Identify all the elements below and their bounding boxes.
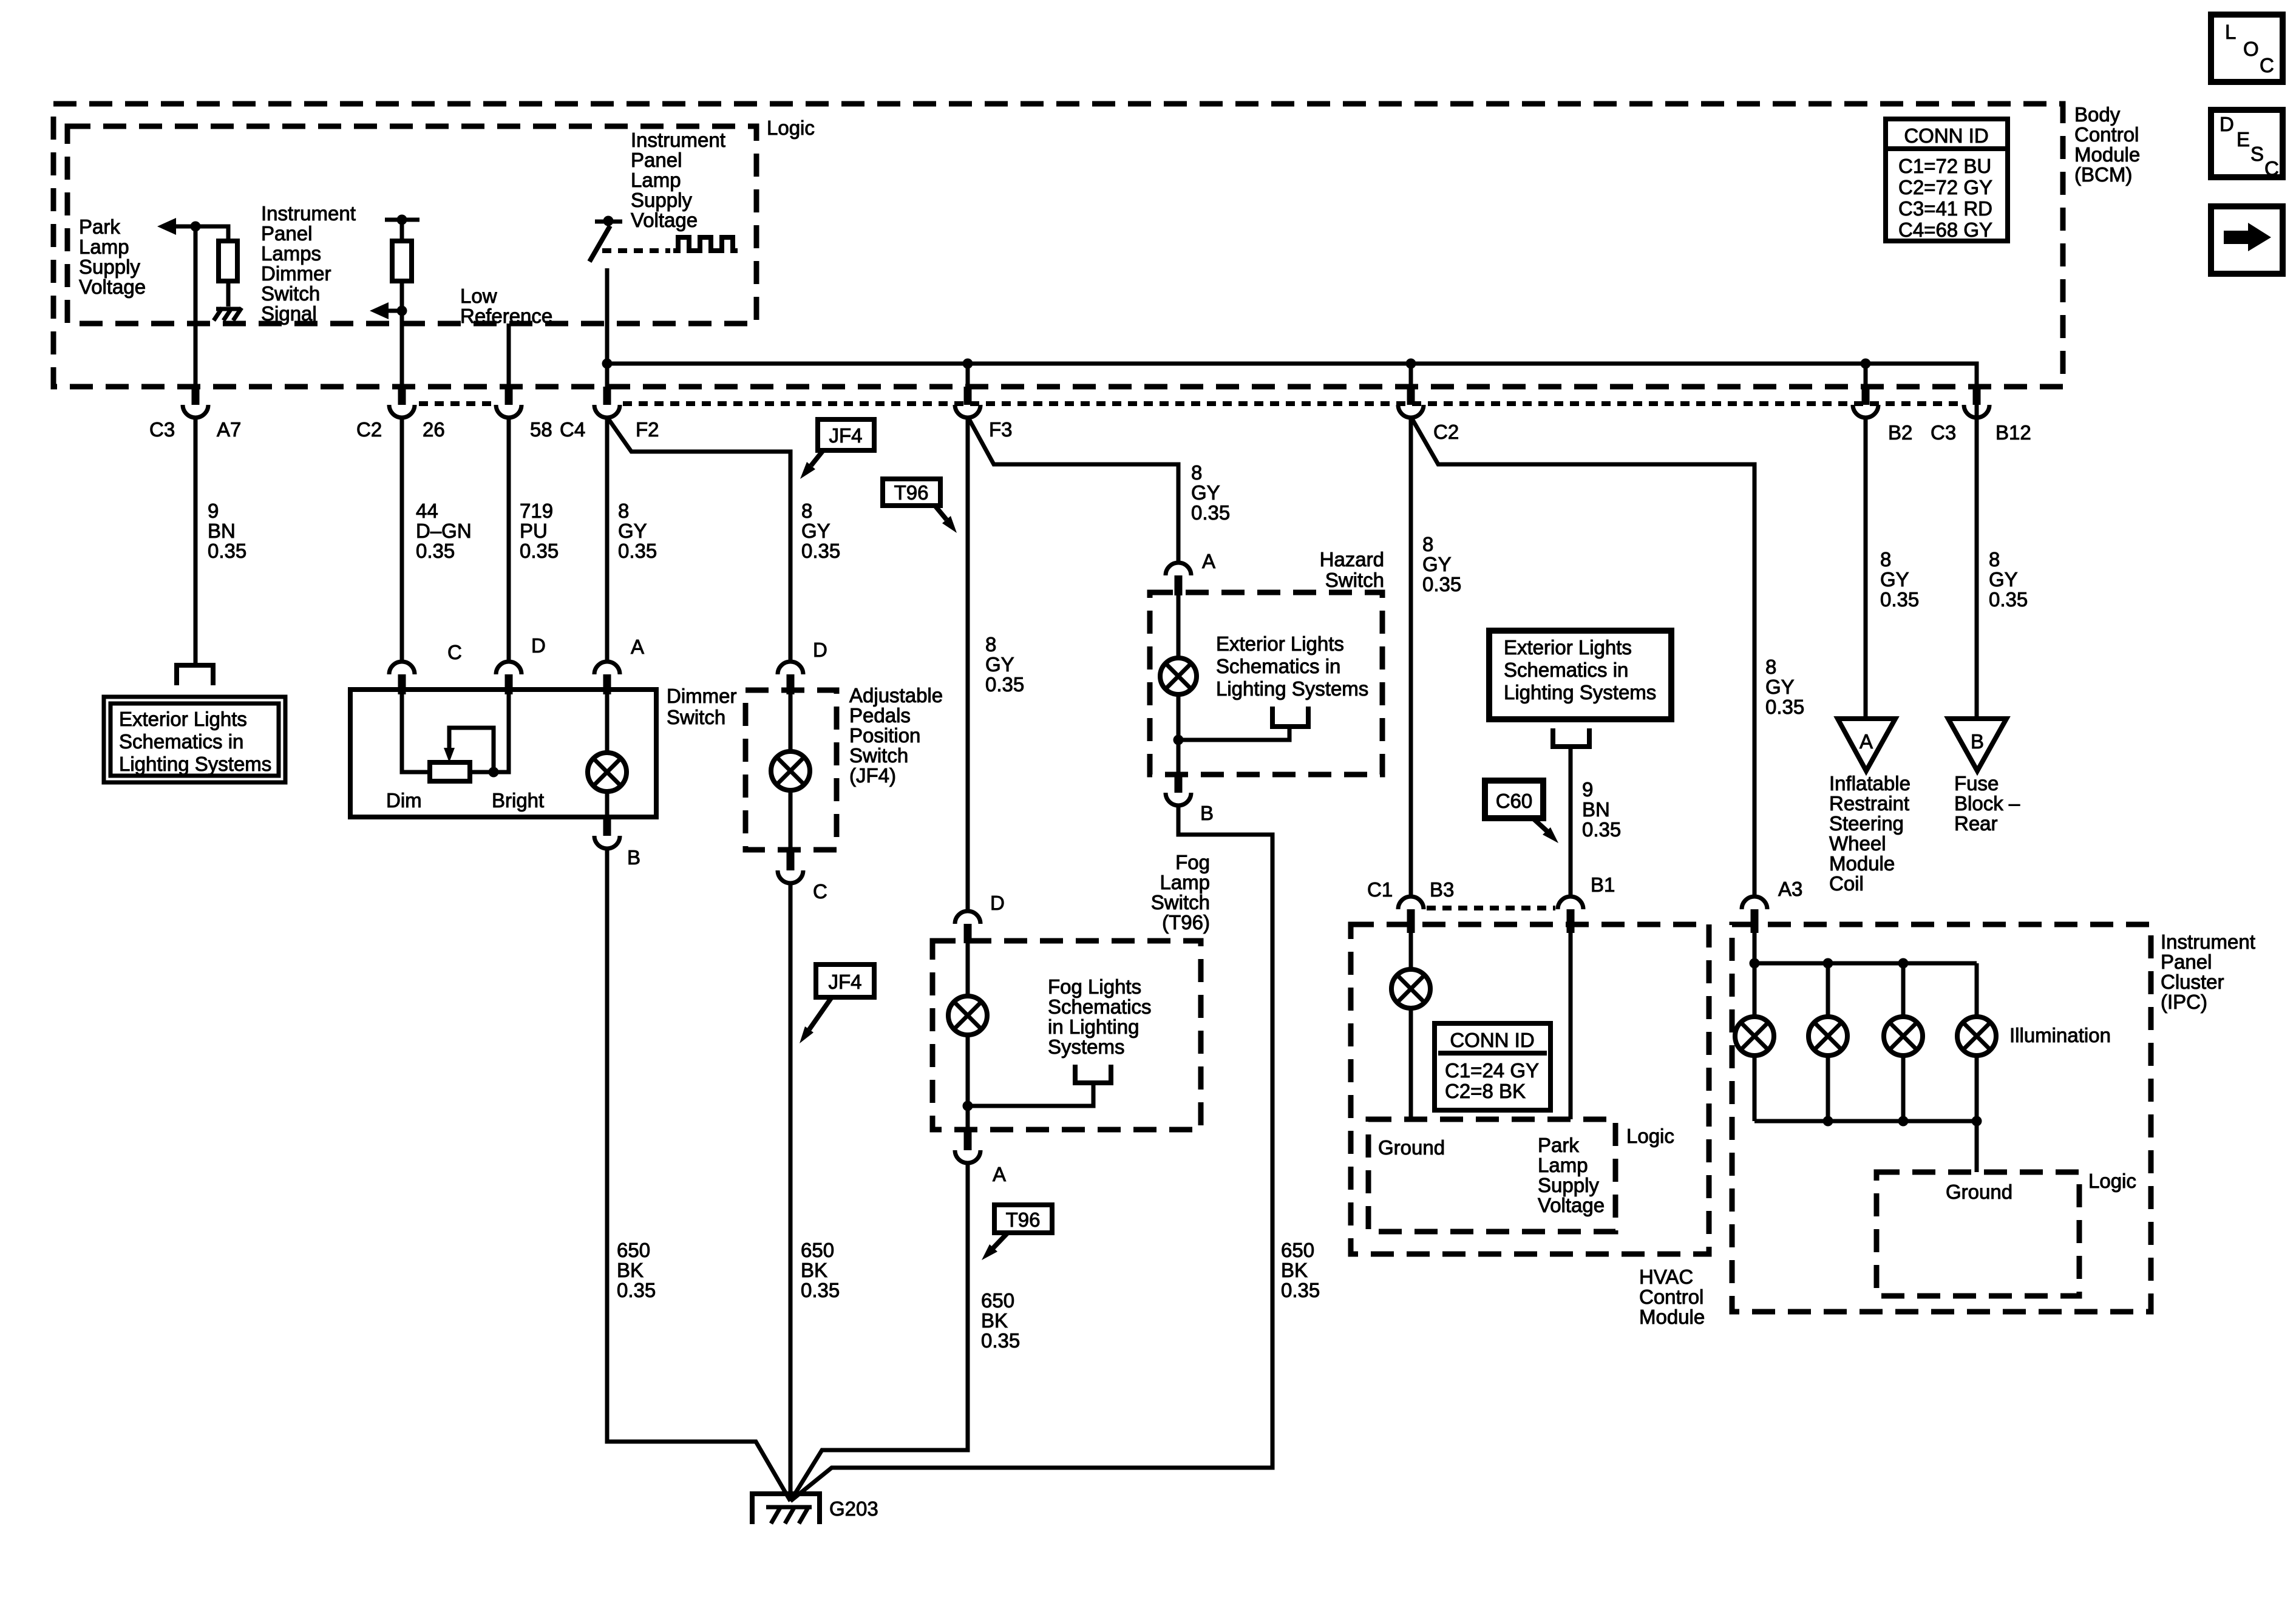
ground chassis (BCM internal) xyxy=(214,308,242,320)
svg-text:Supply: Supply xyxy=(1538,1174,1599,1196)
svg-text:Lighting Systems: Lighting Systems xyxy=(119,753,271,775)
svg-text:Exterior Lights: Exterior Lights xyxy=(119,708,247,730)
node IPC bottom right xyxy=(1972,1116,1982,1127)
svg-text:A: A xyxy=(1202,550,1215,572)
svg-text:G203: G203 xyxy=(829,1497,878,1520)
svg-text:GY: GY xyxy=(1765,676,1795,698)
svg-text:Lamp: Lamp xyxy=(1160,871,1210,893)
svg-text:9: 9 xyxy=(208,500,219,522)
connector B at dimmer bottom xyxy=(603,817,611,836)
logic box IPC Logic xyxy=(1877,1172,2079,1296)
svg-text:BK: BK xyxy=(617,1259,644,1281)
svg-text:Position: Position xyxy=(849,724,920,747)
svg-text:0.35: 0.35 xyxy=(1191,501,1230,524)
svg-text:Instrument: Instrument xyxy=(631,129,725,151)
wiper arm with arrow xyxy=(449,728,494,772)
svg-text:8: 8 xyxy=(618,500,629,522)
svg-text:650: 650 xyxy=(617,1239,650,1261)
wire 719 PU 0.35 to dimmer switch D xyxy=(507,418,511,661)
node IPC bus 2 xyxy=(1823,958,1833,969)
svg-text:Cluster: Cluster xyxy=(2161,971,2224,993)
svg-text:Supply: Supply xyxy=(631,189,692,211)
svg-text:C: C xyxy=(447,641,462,663)
node IPC bus 3 xyxy=(1898,958,1909,969)
connector A at hazard switch xyxy=(1166,563,1191,575)
svg-text:(BCM): (BCM) xyxy=(2074,163,2132,186)
svg-text:Exterior Lights: Exterior Lights xyxy=(1216,632,1344,655)
svg-text:B: B xyxy=(1200,802,1214,824)
svg-text:0.35: 0.35 xyxy=(801,540,840,562)
wire 9 BN 0.35 to HVAC B1 xyxy=(1569,747,1573,897)
connector C at dimmer switch xyxy=(389,662,415,674)
wire dotted connector face F2-B12 xyxy=(623,401,1961,406)
svg-text:CONN ID: CONN ID xyxy=(1904,124,1988,147)
svg-text:0.35: 0.35 xyxy=(1422,573,1461,595)
node fog junction xyxy=(963,1101,973,1111)
connector C2 at BCM xyxy=(1407,387,1415,405)
wire 650 BK fog to ground xyxy=(790,1163,968,1501)
svg-text:650: 650 xyxy=(981,1289,1014,1312)
svg-text:Panel: Panel xyxy=(631,149,682,171)
svg-text:Lighting Systems: Lighting Systems xyxy=(1216,677,1368,700)
node wiper tie to bright xyxy=(489,767,499,778)
svg-text:Logic: Logic xyxy=(2088,1170,2136,1192)
wire dimmer D internal xyxy=(470,694,509,772)
symbol PWM square wave xyxy=(673,237,738,251)
wire dotted connector face HVAC xyxy=(1427,906,1555,910)
wire IPC lamp bus top xyxy=(1754,933,1977,963)
svg-text:PU: PU xyxy=(520,520,548,542)
resistor park-lamp pull-up xyxy=(219,241,237,281)
svg-text:Schematics in: Schematics in xyxy=(1216,655,1340,677)
svg-text:F3: F3 xyxy=(989,418,1013,441)
svg-text:Logic: Logic xyxy=(767,117,815,139)
connector C at pedals bottom xyxy=(787,850,795,870)
svg-text:O: O xyxy=(2243,38,2259,60)
svg-text:C4: C4 xyxy=(560,418,585,441)
svg-text:C4=68 GY: C4=68 GY xyxy=(1898,219,1992,241)
svg-text:B1: B1 xyxy=(1591,873,1615,896)
wire dashed switch control xyxy=(602,248,670,253)
component box Adjustable Pedals Position Switch (JF4) xyxy=(746,690,837,850)
wire F2 drop inside BCM xyxy=(605,268,610,389)
svg-text:Schematics: Schematics xyxy=(1048,995,1152,1018)
svg-text:Control: Control xyxy=(2074,123,2139,146)
svg-text:0.35: 0.35 xyxy=(1880,588,1919,611)
svg-text:C1=72 BU: C1=72 BU xyxy=(1898,155,1991,177)
wire C3-A7 drop inside BCM xyxy=(194,226,198,389)
svg-text:Instrument: Instrument xyxy=(2161,931,2255,953)
svg-text:Instrument: Instrument xyxy=(261,202,356,225)
lamp fog switch illumination xyxy=(948,996,987,1035)
potentiometer dimmer rheostat xyxy=(430,762,470,781)
svg-text:A: A xyxy=(993,1163,1006,1185)
svg-text:B3: B3 xyxy=(1430,878,1454,901)
svg-text:GY: GY xyxy=(1422,553,1452,575)
node bus B2 xyxy=(1861,359,1871,369)
callout T96 (lower) xyxy=(982,1205,1052,1260)
wire 9 BN 0.35 C3/A7 to exterior lights xyxy=(194,418,198,664)
legend box DESC xyxy=(2211,110,2283,180)
wire dimmer A-B internal xyxy=(605,694,610,817)
wire 8 GY 0.35 branch to hazard switch xyxy=(969,419,1178,563)
svg-text:Systems: Systems xyxy=(1048,1036,1125,1058)
svg-text:in Lighting: in Lighting xyxy=(1048,1015,1139,1038)
wire F3 drop to edge xyxy=(966,364,970,389)
node IPC bus left xyxy=(1750,958,1760,969)
svg-text:L: L xyxy=(2225,21,2236,43)
svg-text:Coil: Coil xyxy=(1829,872,1864,895)
node IPC bottom 3 xyxy=(1898,1116,1909,1127)
ground G203 splice xyxy=(752,1494,820,1524)
svg-text:D: D xyxy=(531,634,546,657)
connector C2/26 at BCM xyxy=(398,387,406,405)
module box BCM (Body Control Module) xyxy=(53,104,2063,387)
lamp pedals illumination xyxy=(771,751,810,790)
svg-text:Rear: Rear xyxy=(1954,812,1998,835)
connector C3/B12 at BCM xyxy=(1973,387,1981,405)
svg-text:0.35: 0.35 xyxy=(617,1279,656,1301)
reference box Exterior Lights Schematics (left) xyxy=(104,697,285,782)
connector A at fog bottom xyxy=(964,1130,972,1150)
switch IP lamp supply (BCM driver) xyxy=(589,216,622,262)
svg-text:F2: F2 xyxy=(636,418,659,441)
lamp IPC illumination 4 xyxy=(1957,1017,1996,1056)
svg-text:Schematics in: Schematics in xyxy=(119,730,243,753)
svg-text:Body: Body xyxy=(2074,103,2121,126)
svg-text:Exterior Lights: Exterior Lights xyxy=(1504,636,1632,659)
wire 8 GY 0.35 F3 to fog lamp switch xyxy=(966,418,970,911)
svg-text:JF4: JF4 xyxy=(828,971,861,993)
wire 8 GY 0.35 branch to IPC A3 xyxy=(1412,419,1754,897)
svg-text:26: 26 xyxy=(423,418,445,441)
svg-text:A: A xyxy=(1860,730,1873,753)
svg-text:Module: Module xyxy=(1829,852,1895,875)
svg-text:8: 8 xyxy=(1989,548,2000,571)
svg-text:B2: B2 xyxy=(1888,421,1912,444)
svg-text:8: 8 xyxy=(1765,656,1776,678)
lamp IPC illumination 3 xyxy=(1884,1017,1923,1056)
wire IPC lamp branch 1 xyxy=(1753,963,1757,1121)
module box HVAC Control Module xyxy=(1351,924,1709,1254)
node IPC bottom 2 xyxy=(1823,1116,1833,1127)
svg-text:Voltage: Voltage xyxy=(79,276,146,298)
wire BCM internal supply bus xyxy=(607,364,1977,389)
svg-text:BK: BK xyxy=(1281,1259,1308,1281)
connector C3/A7 at BCM xyxy=(192,387,200,405)
svg-text:D–GN: D–GN xyxy=(416,520,472,542)
svg-text:Fuse: Fuse xyxy=(1954,772,1999,795)
node bus F2 xyxy=(602,359,613,369)
svg-text:Fog: Fog xyxy=(1175,851,1210,873)
svg-text:Panel: Panel xyxy=(2161,951,2212,973)
svg-text:Adjustable: Adjustable xyxy=(849,684,943,707)
svg-text:0.35: 0.35 xyxy=(1281,1279,1320,1301)
wire B2 drop to edge xyxy=(1864,364,1868,389)
node resistor top xyxy=(397,215,407,225)
svg-text:Park: Park xyxy=(1538,1134,1579,1156)
svg-text:0.35: 0.35 xyxy=(1582,818,1621,841)
svg-text:0.35: 0.35 xyxy=(981,1329,1020,1352)
off-page triangle B (fuse block) xyxy=(1948,719,2006,771)
legend box LOC xyxy=(2211,15,2283,82)
wire 8 GY 0.35 B12 to fuse block xyxy=(1975,389,1979,719)
node bus F3 xyxy=(963,359,973,369)
svg-text:BK: BK xyxy=(981,1309,1008,1332)
arrow out Park Lamp Supply Voltage xyxy=(157,218,176,235)
callout JF4 (lower) xyxy=(800,964,874,1043)
svg-text:GY: GY xyxy=(1880,568,1909,591)
svg-text:0.35: 0.35 xyxy=(1765,696,1804,718)
wire 8 GY 0.35 branch to pedals switch xyxy=(608,419,790,661)
svg-text:Wheel: Wheel xyxy=(1829,832,1886,855)
svg-text:GY: GY xyxy=(1191,481,1220,504)
connector D at dimmer switch xyxy=(496,662,521,674)
table CONN ID (BCM) xyxy=(1886,119,2008,241)
svg-text:Hazard: Hazard xyxy=(1320,548,1384,571)
svg-text:Pedals: Pedals xyxy=(849,704,911,727)
wire IPC lamp bus bottom xyxy=(1754,1121,1977,1172)
svg-text:Dimmer: Dimmer xyxy=(667,685,736,707)
wire 650 BK hazard to ground xyxy=(790,805,1272,1501)
svg-text:A7: A7 xyxy=(217,418,241,441)
wire 8 GY 0.35 B2 to SIR coil xyxy=(1864,418,1868,719)
reference box Exterior Lights Schematics (right) xyxy=(1489,631,1671,719)
svg-text:Switch: Switch xyxy=(667,706,725,728)
svg-text:BN: BN xyxy=(1582,798,1610,821)
resistor dimmer-signal pull-up xyxy=(392,241,412,281)
lamp HVAC illumination xyxy=(1391,969,1430,1008)
svg-text:Dim: Dim xyxy=(386,789,422,812)
callout JF4 (top) xyxy=(800,419,874,479)
svg-text:BK: BK xyxy=(801,1259,827,1281)
wire low reference drop xyxy=(507,324,511,389)
svg-text:Control: Control xyxy=(1639,1286,1703,1308)
svg-text:0.35: 0.35 xyxy=(416,540,455,562)
svg-text:JF4: JF4 xyxy=(829,424,862,447)
svg-text:BN: BN xyxy=(208,520,236,542)
off-page triangle A (SIR coil) xyxy=(1838,719,1895,771)
svg-text:Inflatable: Inflatable xyxy=(1829,772,1911,795)
connector D at fog lamp switch xyxy=(955,911,980,924)
svg-text:719: 719 xyxy=(520,500,553,522)
svg-text:650: 650 xyxy=(1281,1239,1314,1261)
svg-text:T96: T96 xyxy=(894,481,929,504)
wire HVAC B1 internal xyxy=(1569,933,1573,1119)
wire 8 GY 0.35 F2 to dimmer A xyxy=(605,418,610,661)
svg-text:58: 58 xyxy=(530,418,552,441)
lamp IPC illumination 1 xyxy=(1735,1017,1774,1056)
svg-text:44: 44 xyxy=(416,500,438,522)
node bus C2 xyxy=(1406,359,1416,369)
svg-text:A3: A3 xyxy=(1778,878,1802,900)
connector A3 at IPC xyxy=(1742,897,1767,909)
node junction dimmer signal xyxy=(397,306,407,316)
table CONN ID (HVAC) xyxy=(1435,1023,1550,1110)
svg-text:Lamps: Lamps xyxy=(261,242,321,265)
wire arrow to node xyxy=(387,309,402,313)
wire IPC lamp branch 2 xyxy=(1826,963,1830,1121)
svg-text:Park: Park xyxy=(79,215,120,238)
svg-text:Steering: Steering xyxy=(1829,812,1904,835)
svg-text:Lamp: Lamp xyxy=(79,236,129,258)
wire C2 drop to edge xyxy=(1409,364,1413,389)
node junction park wire xyxy=(191,222,201,232)
node hazard junction xyxy=(1173,735,1184,745)
svg-text:Module: Module xyxy=(1639,1306,1705,1328)
svg-text:Voltage: Voltage xyxy=(1538,1194,1605,1216)
svg-text:Switch: Switch xyxy=(1325,569,1384,591)
svg-text:Switch: Switch xyxy=(261,282,320,305)
svg-text:0.35: 0.35 xyxy=(985,673,1024,696)
connector F3 at BCM xyxy=(964,387,972,405)
svg-text:C2=72 GY: C2=72 GY xyxy=(1898,176,1992,198)
wire IPC lamp branch 3 xyxy=(1901,963,1906,1121)
wire pedals lamp internal xyxy=(789,694,793,850)
svg-text:GY: GY xyxy=(618,520,647,542)
svg-text:C: C xyxy=(813,880,827,903)
svg-text:8: 8 xyxy=(801,500,812,522)
svg-text:CONN ID: CONN ID xyxy=(1450,1029,1534,1051)
svg-text:8: 8 xyxy=(1880,548,1891,571)
svg-text:Fog Lights: Fog Lights xyxy=(1048,975,1141,998)
svg-text:Low: Low xyxy=(460,285,497,307)
wire dimmer C internal xyxy=(402,694,430,772)
svg-text:0.35: 0.35 xyxy=(801,1279,840,1301)
wire fog reference to lamp wire xyxy=(968,1083,1093,1106)
legend box right-arrow xyxy=(2211,206,2283,274)
wire 650 BK pedals to ground xyxy=(789,883,793,1501)
connector B2 at BCM xyxy=(1862,387,1870,405)
terminal bracket to exterior lights box xyxy=(177,665,213,685)
lamp hazard illumination xyxy=(1160,658,1197,694)
component box Hazard Switch xyxy=(1150,592,1382,775)
svg-text:0.35: 0.35 xyxy=(520,540,559,562)
callout C60 xyxy=(1485,781,1558,843)
svg-text:Voltage: Voltage xyxy=(631,209,698,231)
connector F2 at BCM xyxy=(603,387,611,405)
connector B1 at HVAC xyxy=(1558,897,1583,909)
svg-text:E: E xyxy=(2237,128,2250,151)
svg-text:Restraint: Restraint xyxy=(1829,792,1909,815)
lamp IPC illumination 2 xyxy=(1809,1017,1847,1056)
module box Instrument Panel Cluster (IPC) xyxy=(1732,924,2151,1312)
svg-text:C2=8 BK: C2=8 BK xyxy=(1445,1080,1526,1102)
wire dimmer-signal vertical xyxy=(400,220,404,389)
svg-text:9: 9 xyxy=(1582,778,1593,801)
arrow in dimmer switch signal xyxy=(370,302,389,319)
connector B at hazard bottom xyxy=(1175,775,1183,793)
wire 650 BK dimmer B to ground xyxy=(607,849,790,1501)
svg-text:C3: C3 xyxy=(1931,421,1956,444)
svg-text:8: 8 xyxy=(985,633,996,656)
svg-text:GY: GY xyxy=(985,653,1014,676)
wire 44 D-GN 0.35 to dimmer switch C xyxy=(400,418,404,661)
svg-text:(JF4): (JF4) xyxy=(849,764,896,787)
wire HVAC C1 lamp internal xyxy=(1409,933,1413,1119)
svg-text:Lighting Systems: Lighting Systems xyxy=(1504,681,1656,703)
svg-text:0.35: 0.35 xyxy=(1989,588,2028,611)
wire tee above resistor xyxy=(385,218,419,222)
svg-text:0.35: 0.35 xyxy=(618,540,657,562)
wire fog lamp internal xyxy=(966,943,970,1130)
svg-text:D: D xyxy=(813,639,827,661)
connector D at pedals switch xyxy=(778,662,803,674)
svg-text:D: D xyxy=(990,892,1005,914)
svg-text:Reference: Reference xyxy=(460,305,552,327)
terminal bracket exterior lights to B1 xyxy=(1553,728,1589,747)
svg-text:C: C xyxy=(2260,54,2274,76)
svg-text:Switch: Switch xyxy=(849,744,908,767)
svg-text:B12: B12 xyxy=(1995,421,2031,444)
component box Fog Lamp Switch xyxy=(932,941,1201,1130)
wire 8 GY 0.35 C2 to HVAC C1 xyxy=(1409,418,1413,897)
svg-text:Lamp: Lamp xyxy=(631,169,681,191)
svg-text:Illumination: Illumination xyxy=(2009,1024,2111,1046)
svg-text:GY: GY xyxy=(801,520,830,542)
svg-text:Ground: Ground xyxy=(1946,1181,2012,1203)
wire hazard reference to lamp wire xyxy=(1178,727,1289,740)
svg-text:Logic: Logic xyxy=(1626,1125,1674,1147)
logic box BCM Logic xyxy=(67,126,756,324)
wire park-lamp horizontal xyxy=(175,226,228,307)
svg-text:A: A xyxy=(631,636,644,658)
svg-text:B: B xyxy=(627,846,640,869)
svg-text:Ground: Ground xyxy=(1378,1136,1445,1159)
svg-text:C2: C2 xyxy=(356,418,382,441)
svg-text:HVAC: HVAC xyxy=(1639,1266,1693,1288)
svg-text:8: 8 xyxy=(1422,533,1433,555)
svg-text:(T96): (T96) xyxy=(1162,911,1210,934)
svg-text:Schematics in: Schematics in xyxy=(1504,659,1628,681)
svg-text:Switch: Switch xyxy=(1151,891,1210,914)
svg-text:GY: GY xyxy=(1989,568,2018,591)
terminal bracket hazard reference xyxy=(1272,707,1308,727)
svg-text:C: C xyxy=(2264,157,2279,180)
wire dotted connector face C2-C4 xyxy=(419,401,493,406)
svg-text:Signal: Signal xyxy=(261,302,317,325)
svg-text:Dimmer: Dimmer xyxy=(261,262,331,285)
svg-text:S: S xyxy=(2250,143,2264,165)
terminal bracket fog lights reference xyxy=(1075,1065,1111,1083)
logic box HVAC Logic xyxy=(1368,1119,1615,1232)
svg-text:C60: C60 xyxy=(1496,790,1533,812)
svg-text:Block –: Block – xyxy=(1954,792,2020,815)
wire IPC lamp branch 4 xyxy=(1975,963,1979,1121)
svg-text:8: 8 xyxy=(1191,461,1202,484)
svg-text:B: B xyxy=(1971,730,1984,753)
lamp dimmer illumination xyxy=(588,753,627,792)
svg-text:Module: Module xyxy=(2074,143,2140,166)
svg-text:0.35: 0.35 xyxy=(208,540,246,562)
svg-text:650: 650 xyxy=(801,1239,834,1261)
component box Dimmer Switch xyxy=(350,690,656,817)
svg-text:Bright: Bright xyxy=(492,789,544,812)
svg-text:D: D xyxy=(2220,113,2234,135)
svg-text:Panel: Panel xyxy=(261,222,312,245)
wire hazard lamp internal xyxy=(1177,595,1181,775)
svg-text:C3: C3 xyxy=(149,418,175,441)
svg-text:C1=24 GY: C1=24 GY xyxy=(1445,1059,1539,1082)
connector A at dimmer switch xyxy=(594,662,620,674)
connector C1/B3 at HVAC xyxy=(1398,897,1424,909)
svg-text:C1: C1 xyxy=(1367,878,1393,901)
callout T96 (top) xyxy=(883,479,957,533)
connector C4/58 at BCM xyxy=(505,387,513,405)
svg-text:Supply: Supply xyxy=(79,256,140,278)
svg-text:C2: C2 xyxy=(1433,421,1459,443)
svg-text:(IPC): (IPC) xyxy=(2161,991,2207,1013)
